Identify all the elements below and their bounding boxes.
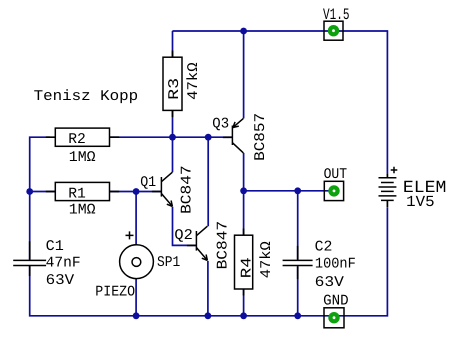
piezo speaker SP1 plus mark xyxy=(126,231,134,239)
battery ELEM plus mark xyxy=(391,167,398,174)
wire left rail above C1 xyxy=(30,137,50,260)
transistor Q1 emitter with arrow xyxy=(161,194,172,207)
wire Q3 emitter up xyxy=(243,31,245,118)
wire SP1 bottom xyxy=(135,279,137,316)
resistor R1 pins xyxy=(46,191,119,193)
transistor Q3 base bar xyxy=(231,126,233,146)
resistor R2 xyxy=(55,128,109,146)
wire R4 bottom stub xyxy=(243,289,245,316)
svg-text:C1: C1 xyxy=(46,239,64,255)
svg-text:63V: 63V xyxy=(315,275,344,291)
battery ELEM long plates xyxy=(379,178,397,196)
svg-text:1MΩ: 1MΩ xyxy=(69,150,96,166)
resistor R3 xyxy=(163,57,182,110)
svg-text:R2: R2 xyxy=(68,132,86,148)
transistor Q2 base bar xyxy=(195,231,197,251)
svg-text:PIEZO: PIEZO xyxy=(95,285,135,301)
wire top rail V1.5 net xyxy=(172,31,387,174)
transistor Q1 base bar xyxy=(160,177,162,197)
wire Q2 emitter down xyxy=(207,261,209,316)
terminal V1.5 green pad xyxy=(328,25,339,36)
piezo speaker SP1 inner dot xyxy=(132,258,141,267)
transistor Q2 emitter with arrow xyxy=(196,248,207,261)
transistor Q2 collector xyxy=(196,226,207,236)
node junction top rail / Q3 emitter xyxy=(240,28,247,35)
wire R2 to Q3 base row xyxy=(110,136,233,138)
svg-text:BC857: BC857 xyxy=(253,113,269,161)
terminal OUT square xyxy=(324,181,343,200)
wire OUT row xyxy=(244,190,334,192)
svg-text:47kΩ: 47kΩ xyxy=(259,241,275,278)
svg-text:63V: 63V xyxy=(46,273,75,289)
wire C2 bottom stub xyxy=(297,266,299,316)
resistor R4 xyxy=(235,235,253,289)
piezo speaker SP1 body xyxy=(120,245,154,279)
wire bottom rail GND net xyxy=(30,208,388,316)
node junction OUT row R4 xyxy=(240,187,247,194)
transistor Q1 collector xyxy=(161,172,172,182)
capacitor C2 plates xyxy=(283,260,313,265)
resistor R4 pins xyxy=(243,229,245,296)
svg-text:BC847: BC847 xyxy=(215,221,231,270)
svg-text:R4: R4 xyxy=(239,257,255,278)
transistor Q3 collector xyxy=(232,143,243,153)
node junction left rail R1 xyxy=(26,188,33,195)
terminal V1.5 square xyxy=(324,21,343,40)
svg-text:47kΩ: 47kΩ xyxy=(186,62,202,100)
resistor R2 pins xyxy=(46,136,119,138)
svg-text:Q3: Q3 xyxy=(212,116,229,132)
resistor R1 xyxy=(55,182,109,200)
node junction bottom SP1 xyxy=(133,312,140,319)
terminal OUT green pad xyxy=(328,185,339,196)
svg-text:R1: R1 xyxy=(68,187,86,203)
wire Q2 collector up to row xyxy=(207,137,209,226)
node junction R1/Q1 base/SP1 xyxy=(133,188,140,195)
svg-text:R3: R3 xyxy=(167,78,183,100)
wire R1 row xyxy=(30,191,161,193)
node junction R3 bottom row xyxy=(169,134,176,141)
node junction bottom Q2 emitter xyxy=(205,312,212,319)
battery ELEM short thick plates xyxy=(381,183,394,201)
wire C2 top stub xyxy=(297,191,299,260)
wire Q3 collector down xyxy=(243,153,245,191)
wire Q1 emitter to Q2 base xyxy=(173,207,197,246)
svg-text:GND: GND xyxy=(323,293,349,309)
capacitor C1 pins xyxy=(29,241,31,276)
wire R3 bottom to Q1 collector xyxy=(172,110,174,172)
svg-text:C2: C2 xyxy=(315,239,333,255)
terminal GND green pad xyxy=(328,312,339,323)
battery ELEM top stub xyxy=(386,174,388,208)
node junction bottom R4 xyxy=(240,312,247,319)
terminal GND square xyxy=(324,308,344,328)
transistor Q3 emitter with arrow xyxy=(232,118,243,128)
svg-text:47nF: 47nF xyxy=(46,256,81,272)
svg-text:100nF: 100nF xyxy=(315,257,356,273)
svg-text:OUT: OUT xyxy=(324,167,348,183)
svg-text:Tenisz Kopp: Tenisz Kopp xyxy=(34,89,139,105)
svg-text:Q1: Q1 xyxy=(140,175,156,191)
resistor R3 pins xyxy=(172,51,174,118)
wire R4 top stub xyxy=(243,191,245,235)
svg-text:BC847: BC847 xyxy=(179,165,195,214)
node junction bottom C2 xyxy=(294,312,301,319)
transistor Q1 base pin xyxy=(152,191,162,193)
node junction OUT row C2 xyxy=(294,187,301,194)
transistor Q3 base pin xyxy=(223,136,233,138)
svg-text:SP1: SP1 xyxy=(157,255,180,271)
node junction Q2 collector row xyxy=(205,134,212,141)
svg-text:V1.5: V1.5 xyxy=(323,6,350,24)
capacitor C1 plates xyxy=(13,260,46,265)
transistor Q2 base pin xyxy=(187,244,197,246)
capacitor C2 pins xyxy=(297,246,299,279)
svg-text:1V5: 1V5 xyxy=(406,193,434,211)
wire SP1 top xyxy=(135,192,137,245)
wire R3 top stub xyxy=(172,31,174,57)
svg-text:1MΩ: 1MΩ xyxy=(69,203,96,219)
svg-text:Q2: Q2 xyxy=(174,228,192,244)
